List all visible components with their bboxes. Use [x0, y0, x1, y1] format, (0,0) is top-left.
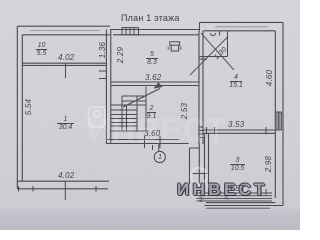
dim 1.36 rot	[99, 42, 107, 58]
dim 3.60	[144, 130, 160, 138]
chimney in top wall	[122, 28, 139, 35]
left block left wall	[17, 26, 22, 189]
middle block top wall	[110, 30, 200, 35]
door jamb stubs left/middle	[99, 71, 107, 79]
middle block bottom wall	[107, 140, 189, 144]
axis number 1	[158, 154, 162, 162]
dim 3.57	[228, 185, 244, 193]
steps dimension line	[209, 189, 267, 196]
dim 2.98 rot	[265, 156, 273, 172]
stairs	[111, 87, 146, 132]
dim tick 4.02 top	[65, 63, 67, 78]
bottom scan shadow band	[0, 206, 300, 230]
room 4 label	[230, 74, 242, 89]
room 10 label	[36, 42, 47, 57]
dim 2.29 rot	[117, 47, 125, 63]
porch steps	[197, 193, 273, 208]
room 2 label	[147, 105, 156, 120]
room3 left wall	[205, 133, 209, 184]
corner diagonal wall 1.30	[201, 33, 234, 70]
wall between rooms 4 and 3	[204, 130, 276, 133]
dark watermark	[177, 180, 268, 200]
wall between middle and right block	[199, 31, 203, 144]
chimney on right wall	[275, 112, 281, 130]
bottom dimension ticks	[19, 181, 97, 200]
diagonal corner box right edge	[227, 31, 229, 57]
axis line to circle 1	[153, 144, 159, 152]
title	[121, 14, 180, 23]
room10 bottom wall	[22, 63, 106, 65]
right block right wall	[275, 22, 283, 205]
right block top wall	[200, 22, 284, 30]
door hinge arc on inner top wall	[210, 33, 215, 36]
dim 4.02 top	[58, 54, 74, 62]
left block top wall	[17, 26, 110, 35]
hatch on wall bottom	[200, 127, 204, 138]
small tick on box top	[219, 31, 221, 36]
ascending diagonal of corner X	[190, 37, 228, 76]
top wall step joint	[199, 23, 201, 32]
axis circle 1	[154, 151, 165, 162]
stairs arrow	[123, 89, 160, 108]
room 3 label	[230, 157, 245, 172]
room 1 label	[57, 116, 74, 131]
dim 5.54 rot	[25, 99, 33, 115]
room5 bottom wall	[111, 82, 200, 86]
dim 4.02 bottom	[58, 172, 74, 180]
wall between left and middle block	[106, 30, 110, 145]
left block bottom wall	[17, 181, 109, 189]
window line right top wall	[215, 26, 268, 28]
room3 bottom wall	[205, 203, 284, 206]
dim 2.53 rot	[181, 103, 189, 119]
dim 3.62	[145, 74, 161, 82]
dim ticks 3.60	[145, 136, 161, 148]
big light watermark	[88, 112, 226, 149]
dim 4.60 rot	[266, 70, 274, 86]
dim line 3.53	[207, 127, 267, 135]
dim 3.53	[228, 121, 244, 129]
step arrowheads	[197, 192, 230, 203]
stove icon in room 5	[168, 42, 182, 51]
porch shaft walls	[190, 144, 200, 185]
diagonal corner box bottom edge	[203, 56, 228, 58]
room 5 label	[146, 51, 158, 66]
door threshold stubs in hall right wall	[200, 57, 208, 60]
window line in top wall	[30, 29, 100, 31]
porch threshold line	[193, 173, 208, 175]
dim 1.30 diagonal	[213, 46, 229, 62]
